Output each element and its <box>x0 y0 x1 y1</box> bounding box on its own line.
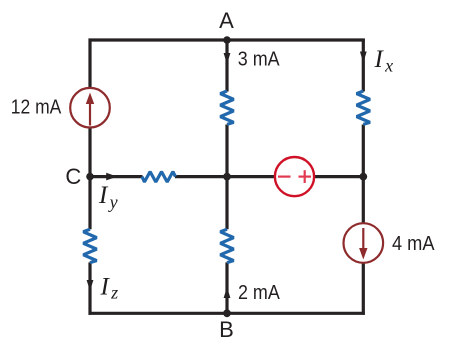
svg-text:4 mA: 4 mA <box>392 233 435 255</box>
svg-text:Iz: Iz <box>100 274 119 303</box>
svg-text:2 mA: 2 mA <box>238 282 280 304</box>
svg-text:A: A <box>219 8 234 33</box>
svg-text:Iy: Iy <box>98 182 118 212</box>
svg-text:12 mA: 12 mA <box>11 97 62 119</box>
svg-text:Ix: Ix <box>374 46 394 76</box>
svg-text:C: C <box>65 164 81 189</box>
svg-text:3 mA: 3 mA <box>238 49 280 71</box>
svg-text:B: B <box>219 317 234 342</box>
